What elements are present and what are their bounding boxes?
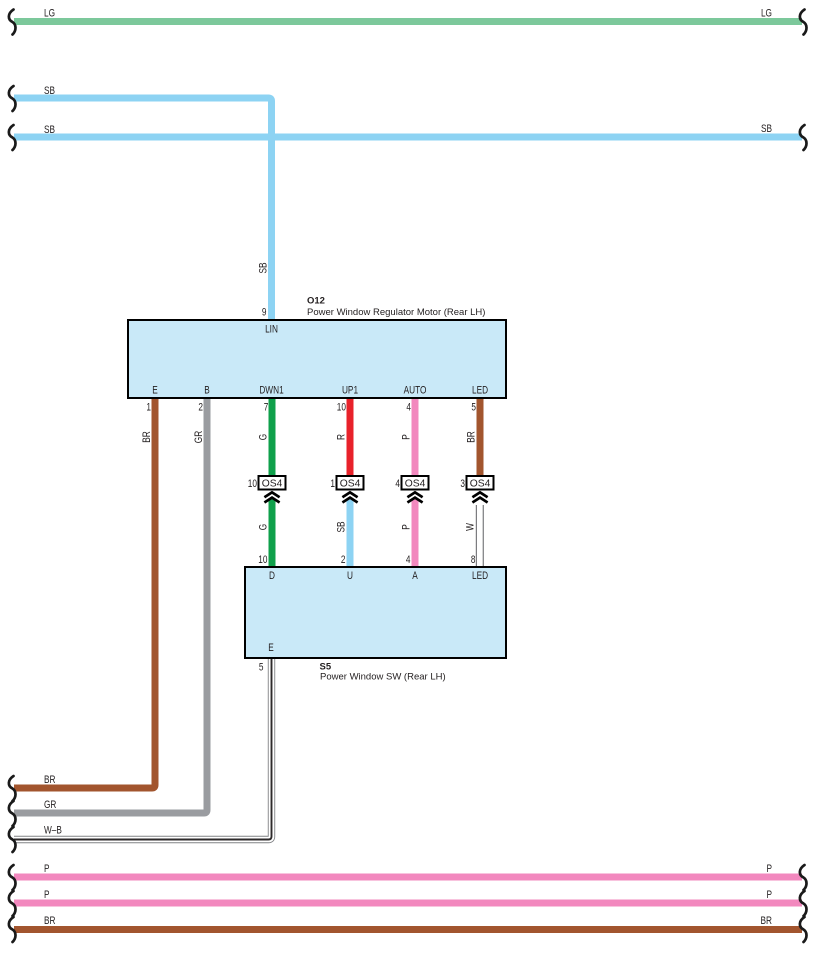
svg-text:LED: LED (472, 570, 488, 582)
svg-text:LIN: LIN (265, 324, 278, 336)
svg-text:G: G (258, 524, 270, 530)
svg-text:LED: LED (472, 385, 488, 397)
svg-text:DWN1: DWN1 (259, 385, 283, 397)
svg-text:R: R (336, 434, 348, 440)
svg-text:SB: SB (44, 124, 55, 136)
svg-text:P: P (766, 889, 772, 901)
svg-text:5: 5 (471, 402, 476, 414)
svg-text:BR: BR (141, 431, 153, 443)
svg-text:LG: LG (761, 8, 772, 20)
svg-text:E: E (152, 385, 158, 397)
svg-text:B: B (204, 385, 210, 397)
svg-text:D: D (269, 570, 275, 582)
svg-text:2: 2 (341, 554, 346, 566)
svg-text:BR: BR (44, 915, 56, 927)
svg-text:GR: GR (44, 799, 57, 811)
svg-text:GR: GR (193, 431, 205, 444)
svg-text:SB: SB (336, 521, 348, 532)
svg-text:P: P (44, 889, 50, 901)
svg-text:BR: BR (44, 774, 56, 786)
svg-text:1: 1 (330, 478, 335, 490)
svg-text:A: A (412, 570, 418, 582)
svg-text:U: U (347, 570, 353, 582)
svg-text:OS4: OS4 (405, 478, 426, 489)
svg-text:G: G (258, 434, 270, 440)
svg-text:W–B: W–B (44, 825, 62, 837)
svg-text:3: 3 (460, 478, 465, 490)
svg-text:P: P (401, 524, 413, 530)
svg-text:P: P (401, 434, 413, 440)
svg-text:LG: LG (44, 8, 55, 20)
svg-text:8: 8 (471, 554, 476, 566)
svg-text:10: 10 (337, 402, 346, 414)
svg-text:5: 5 (259, 662, 264, 674)
svg-text:P: P (766, 863, 772, 875)
svg-text:1: 1 (146, 402, 151, 414)
svg-text:7: 7 (264, 402, 269, 414)
svg-text:O12: O12 (307, 296, 325, 307)
svg-text:Power Window SW (Rear LH): Power Window SW (Rear LH) (320, 672, 446, 683)
svg-text:UP1: UP1 (342, 385, 358, 397)
svg-text:SB: SB (258, 262, 270, 273)
svg-text:BR: BR (466, 431, 478, 443)
svg-text:OS4: OS4 (262, 478, 283, 489)
svg-text:OS4: OS4 (470, 478, 491, 489)
svg-text:BR: BR (761, 915, 773, 927)
svg-text:W: W (465, 523, 477, 531)
svg-text:9: 9 (262, 306, 267, 318)
svg-text:10: 10 (258, 554, 267, 566)
svg-text:AUTO: AUTO (404, 385, 427, 397)
svg-text:Power Window Regulator Motor (: Power Window Regulator Motor (Rear LH) (307, 307, 485, 318)
svg-text:OS4: OS4 (340, 478, 361, 489)
svg-text:10: 10 (248, 478, 257, 490)
svg-text:SB: SB (761, 123, 772, 135)
svg-text:SB: SB (44, 85, 55, 97)
svg-text:4: 4 (395, 478, 400, 490)
svg-text:4: 4 (406, 554, 411, 566)
svg-text:P: P (44, 863, 50, 875)
svg-text:4: 4 (406, 402, 411, 414)
svg-text:2: 2 (198, 402, 203, 414)
svg-text:E: E (268, 642, 274, 654)
